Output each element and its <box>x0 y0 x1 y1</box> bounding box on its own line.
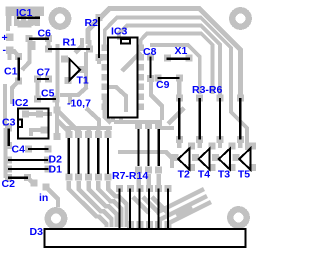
svg-text:T3: T3 <box>218 168 230 180</box>
svg-text:R2: R2 <box>85 17 99 29</box>
svg-text:-: - <box>3 44 7 56</box>
svg-text:T1: T1 <box>77 75 89 87</box>
svg-text:C4: C4 <box>12 143 26 155</box>
svg-text:IC2: IC2 <box>12 97 29 109</box>
svg-text:D3: D3 <box>30 226 44 238</box>
svg-text:R1: R1 <box>63 37 77 49</box>
svg-text:T5: T5 <box>238 168 250 180</box>
svg-text:X1: X1 <box>175 45 188 57</box>
svg-text:-10,7: -10,7 <box>67 98 91 110</box>
svg-text:T4: T4 <box>198 168 210 180</box>
svg-text:C8: C8 <box>143 46 157 58</box>
svg-text:C3: C3 <box>2 116 16 128</box>
svg-text:C1: C1 <box>4 65 18 77</box>
svg-text:D1: D1 <box>49 163 63 175</box>
svg-text:IC1: IC1 <box>16 7 33 19</box>
svg-text:C9: C9 <box>156 79 170 91</box>
svg-text:C5: C5 <box>41 87 55 99</box>
svg-text:in: in <box>39 192 48 204</box>
svg-text:IC3: IC3 <box>111 26 128 38</box>
svg-text:C2: C2 <box>2 178 16 190</box>
svg-text:R3-R6: R3-R6 <box>192 84 223 96</box>
svg-text:R7-R14: R7-R14 <box>112 170 148 182</box>
svg-text:C7: C7 <box>37 67 51 79</box>
svg-text:+: + <box>2 32 8 44</box>
svg-text:C6: C6 <box>38 28 52 40</box>
svg-text:T2: T2 <box>178 168 190 180</box>
